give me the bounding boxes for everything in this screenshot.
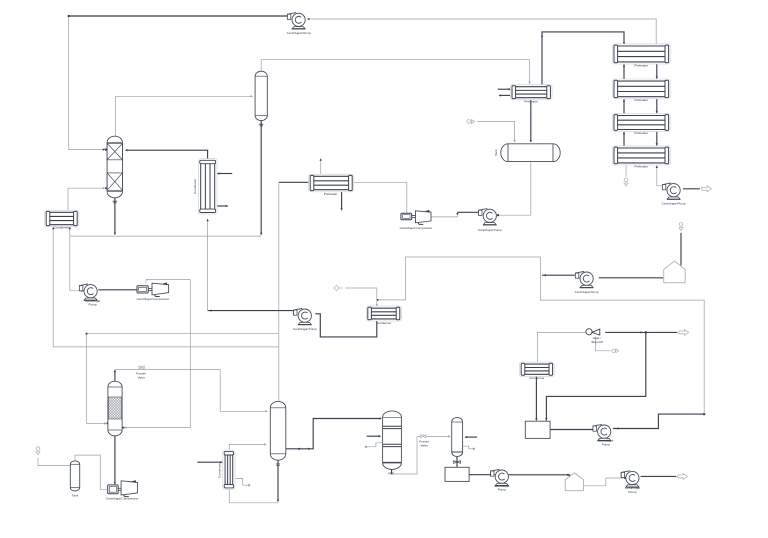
svg-text:Centrifugal Pump: Centrifugal Pump bbox=[478, 228, 502, 232]
arrowhead V2 bottoms down bbox=[259, 124, 263, 235]
wire gate valve discharge bbox=[605, 331, 677, 333]
wire stack right downcomer 3 bbox=[656, 131, 658, 146]
gate shut-off valve GV1 bbox=[586, 329, 600, 335]
wire house H1 to P6 bbox=[599, 277, 663, 279]
wire big recycle to E5 condenser bbox=[378, 257, 704, 414]
arrowhead stack right 3 bbox=[656, 143, 658, 146]
dot V5 drain end bbox=[473, 448, 475, 450]
pump P4 centrifugal bbox=[479, 209, 497, 225]
svg-text:Condenser: Condenser bbox=[218, 463, 222, 478]
arrowhead into E5 top bbox=[376, 304, 378, 307]
heat exchanger E4d preheater bbox=[612, 146, 670, 165]
zigzag valve drain bbox=[596, 337, 611, 351]
arrowhead into E2 bottom bbox=[206, 219, 208, 222]
pump P8 centrifugal bbox=[621, 471, 639, 487]
junction recycle-E5 bbox=[377, 299, 379, 301]
label E5 bbox=[376, 321, 391, 325]
pump P9 centrifugal bbox=[662, 183, 680, 199]
arrowhead into column T1 lower bbox=[103, 187, 107, 189]
svg-text:Condenser: Condenser bbox=[54, 226, 69, 230]
svg-text:Condenser: Condenser bbox=[376, 321, 391, 325]
wire K1 discharge to column C3 bbox=[125, 280, 191, 428]
wire E6 right to K2 motor bbox=[352, 182, 406, 213]
wire icon to house H1 bbox=[680, 233, 682, 266]
tank T2 small bbox=[70, 461, 79, 491]
vessel V2 knockout drum bbox=[255, 71, 267, 120]
wire B2 to pump P5 bbox=[469, 474, 495, 476]
svg-text:Centrifugal Pump: Centrifugal Pump bbox=[662, 201, 686, 205]
label E3 bbox=[524, 99, 538, 103]
label P9 bbox=[662, 201, 686, 205]
hopper H1 bbox=[664, 261, 686, 283]
label K3 bbox=[106, 496, 139, 500]
label P5 line1 bbox=[494, 484, 509, 488]
label R1 bbox=[388, 471, 394, 475]
arrowhead C3 overhead up bbox=[114, 369, 116, 372]
svg-text:Valve: Valve bbox=[137, 375, 145, 379]
arrowhead R1 side feed bbox=[379, 435, 382, 437]
compressor K3 centrifugal bbox=[108, 480, 138, 496]
wire P7 discharge recycle bbox=[613, 414, 703, 428]
V5 bottoms valve mark bbox=[454, 461, 461, 464]
wire P1 discharge down to column T1 feed bbox=[69, 16, 105, 150]
svg-text:Pump: Pump bbox=[602, 442, 610, 446]
heat exchanger E3 preheater bbox=[510, 85, 552, 100]
label GV1 line1 bbox=[593, 336, 602, 340]
label FV2 line1 bbox=[419, 440, 429, 444]
arrowhead E6 drain bbox=[340, 208, 342, 211]
svg-text:Pump: Pump bbox=[498, 488, 506, 492]
wire stack right downcomer 2 bbox=[656, 98, 658, 113]
wire stack left riser 2 bbox=[623, 99, 625, 114]
wire H2 to pump P8 bbox=[584, 478, 625, 486]
svg-text:Centrifugal Pump: Centrifugal Pump bbox=[287, 31, 311, 35]
svg-text:Preheater: Preheater bbox=[635, 98, 649, 102]
label P4 bbox=[478, 228, 502, 232]
stub E6 top vent bbox=[320, 160, 322, 175]
svg-text:Shut-Off: Shut-Off bbox=[591, 340, 603, 344]
feeder valve FV2 bbox=[421, 434, 426, 438]
stream outlet arrow after P9 bbox=[702, 186, 712, 192]
svg-text:Preheater: Preheater bbox=[635, 164, 649, 168]
svg-text:Tank: Tank bbox=[494, 149, 498, 156]
junction dot C3 header corner bbox=[86, 333, 88, 335]
heat exchanger E4a preheater bbox=[612, 44, 670, 64]
wire C3 overhead bbox=[114, 371, 116, 382]
stream icon stack vent bbox=[624, 178, 628, 186]
label E8 rotated bbox=[218, 463, 222, 478]
wire condenser E2 top to column T1 right bbox=[126, 150, 208, 160]
pump P7 centrifugal bbox=[593, 424, 611, 440]
pump P1 centrifugal bbox=[287, 13, 305, 29]
arrowhead C4 bottoms bbox=[276, 464, 280, 502]
arrowhead stack right 1 bbox=[656, 76, 658, 79]
arrowhead into B1 top bbox=[545, 418, 547, 421]
arrowhead E2 stub bbox=[226, 205, 229, 207]
column C4 tall vessel bbox=[270, 401, 286, 460]
wire valve FV2 to drum V5 bbox=[426, 435, 449, 437]
arrowhead into column T1 right bbox=[125, 149, 128, 151]
wire feed icon to tank T2 bbox=[38, 458, 70, 466]
arrowhead E6 vent bbox=[320, 158, 322, 161]
arrowhead into V5 left bbox=[448, 435, 451, 437]
wire V2 bottoms bbox=[260, 121, 262, 234]
stub E6 bottom drain bbox=[341, 191, 343, 209]
wire C4 bottoms bbox=[277, 460, 279, 501]
label P6 bbox=[575, 290, 599, 294]
svg-text:Centrifugal Compressor: Centrifugal Compressor bbox=[106, 496, 139, 500]
drum V5 flash bbox=[452, 417, 463, 456]
arrowhead into R1 bbox=[298, 417, 382, 450]
wire stack left riser 3 bbox=[623, 132, 625, 147]
box B2 sump tank bbox=[445, 467, 469, 481]
wire feed icon to tank top bbox=[478, 122, 515, 142]
label P7 line2 bbox=[602, 442, 610, 446]
arrowhead into H2 bbox=[567, 474, 570, 476]
arrowhead into tank top 2 bbox=[513, 140, 515, 143]
arrowhead into C3 right bbox=[123, 426, 127, 428]
dot R1 drain end bbox=[365, 446, 367, 448]
label GV1 line2 bbox=[591, 340, 603, 344]
reactor R1 tubular bbox=[383, 411, 402, 474]
wire P2 discharge to K1 bbox=[98, 289, 136, 291]
junction dot top-left corner bbox=[68, 15, 70, 17]
label FV1 line1 bbox=[136, 372, 146, 376]
wire E7 bottom to box B1 bbox=[535, 375, 537, 419]
svg-text:Valve: Valve bbox=[420, 443, 428, 447]
wire P1 suction from preheater stack bbox=[308, 19, 657, 46]
label E7 bbox=[529, 376, 544, 380]
svg-text:Preheater: Preheater bbox=[524, 99, 538, 103]
label P2 line1 bbox=[85, 299, 100, 303]
pump P6 centrifugal bbox=[575, 271, 593, 287]
wire E1 top port to column T1 lower feed bbox=[68, 188, 105, 211]
pump P2 centrifugal bbox=[79, 284, 97, 300]
wire E6 left port bbox=[279, 181, 310, 183]
stub E2 side inlet bbox=[218, 173, 232, 175]
condenser E2 vertical bbox=[198, 159, 217, 214]
label FV2 line2 bbox=[420, 443, 428, 447]
wire valve line down to box B1 bbox=[546, 332, 645, 420]
column T1 packed absorber bbox=[107, 136, 122, 198]
arrowhead E3 stub out bbox=[498, 94, 501, 96]
label P5 line2 bbox=[498, 488, 506, 492]
arrowhead stack left 2 bbox=[623, 99, 625, 102]
label P1 bbox=[287, 31, 311, 35]
svg-text:Tank: Tank bbox=[72, 494, 79, 498]
arrowhead into C3 left bbox=[104, 422, 108, 424]
arrowhead P7 discharge bbox=[617, 413, 705, 430]
stream icon E5 feed bbox=[334, 285, 343, 290]
arrowhead E8-C4 bbox=[264, 443, 267, 445]
hopper H2 bbox=[565, 473, 583, 491]
arrowhead E3 stub in bbox=[509, 88, 512, 90]
label E6 bbox=[324, 192, 338, 196]
wire K2 discharge bbox=[432, 213, 458, 217]
arrowhead valve discharge bbox=[640, 331, 647, 333]
svg-text:Centrifugal Pump: Centrifugal Pump bbox=[575, 290, 599, 294]
zigzag R1 drain bbox=[367, 443, 383, 447]
stub E3 left inlet bbox=[498, 88, 510, 90]
label E2 rotated bbox=[193, 179, 197, 194]
svg-text:Preheater: Preheater bbox=[635, 64, 649, 68]
arrowhead stack left 3 bbox=[623, 132, 625, 135]
wire R1 bottoms bbox=[391, 437, 420, 474]
wire diamond icon to E5 top bbox=[345, 288, 377, 306]
heat exchanger E5 condenser bbox=[366, 306, 401, 321]
wire B1 to pump P7 bbox=[550, 429, 594, 431]
svg-text:Pump: Pump bbox=[628, 490, 636, 494]
wire column T1 bottoms bbox=[114, 198, 116, 234]
svg-text:Condenser: Condenser bbox=[193, 179, 197, 194]
label P3 bbox=[293, 327, 317, 331]
label K1 bbox=[137, 297, 170, 301]
wire C3 overhead to C4 feed bbox=[115, 370, 267, 412]
feeder valve FV1 bbox=[139, 365, 144, 369]
arrowhead into V2 left bbox=[251, 95, 254, 97]
arrowhead stack to P9 bbox=[656, 165, 658, 168]
svg-text:Centrifugal Compressor: Centrifugal Compressor bbox=[137, 297, 170, 301]
wire E1 bottoms header bbox=[70, 235, 261, 237]
wire riser to E2 bottom bbox=[207, 220, 209, 311]
arrowhead E7 into B1 bbox=[535, 418, 537, 421]
zigzag E8 drain bbox=[234, 479, 249, 486]
svg-text:Centrifugal Compressor: Centrifugal Compressor bbox=[400, 226, 433, 230]
wire tank T2 to compressor K3 bbox=[75, 455, 107, 489]
stream outlet arrow after P8 bbox=[678, 473, 688, 479]
svg-text:PBR: PBR bbox=[388, 471, 394, 475]
stream icon H1 feed bbox=[679, 223, 683, 231]
wire E6/E1 run down to column C4 top bbox=[278, 182, 280, 347]
compressor K2 centrifugal bbox=[401, 210, 431, 224]
label K2 bbox=[400, 226, 433, 230]
wire E1 right port down to pump P2 bbox=[70, 226, 83, 291]
tank T3 horizontal bbox=[501, 144, 560, 162]
label FV1 line2 bbox=[137, 375, 145, 379]
wire P8 to outlet bbox=[641, 475, 677, 477]
condenser E8 vertical bbox=[223, 450, 235, 490]
arrowhead K2-P4 junction bbox=[456, 212, 458, 215]
svg-text:Condenser: Condenser bbox=[529, 376, 544, 380]
zigzag V5 drain bbox=[462, 446, 473, 449]
label P8 line1 bbox=[625, 486, 640, 490]
stream icon T2 feed bbox=[36, 447, 40, 455]
column C3 packed stripper bbox=[108, 381, 122, 436]
label E4c bbox=[635, 131, 649, 135]
svg-text:Centrifugal Pump: Centrifugal Pump bbox=[293, 327, 317, 331]
arrowhead into column T1 top feed bbox=[103, 148, 107, 150]
wire tank bottoms to pump P4 bbox=[497, 162, 531, 215]
wire P9 discharge to outlet bbox=[683, 188, 700, 190]
junction dot P8 inlet bbox=[624, 477, 626, 479]
stub R1 side feed bbox=[367, 435, 380, 437]
wire E3 bottom to tank bbox=[530, 99, 532, 141]
label E4d bbox=[635, 164, 649, 168]
label E4a bbox=[635, 64, 649, 68]
wire E7 top to gate valve bbox=[538, 332, 588, 363]
wire stack bottom-right to pump P9 bbox=[657, 164, 663, 186]
wire stack bottom-left to vent icon bbox=[625, 164, 627, 177]
stream outlet arrow after GV1 bbox=[679, 329, 689, 335]
wire C4 right to reactor R1 bbox=[286, 419, 381, 449]
svg-text:Pump: Pump bbox=[89, 303, 97, 307]
wire P5 to house H2 bbox=[509, 474, 569, 476]
arrowhead into E8 left bbox=[220, 461, 223, 463]
arrowhead P1 suction bbox=[307, 18, 310, 20]
wire header to column C3 left bbox=[87, 334, 106, 424]
wire E3 to preheater stack feed bbox=[542, 32, 624, 86]
wire stack right downcomer 1 bbox=[656, 63, 658, 78]
heat exchanger E4b preheater bbox=[612, 79, 670, 99]
heat exchanger E4c preheater bbox=[612, 113, 670, 131]
arrowhead stack feed bbox=[541, 34, 625, 45]
wire P3 discharge to E2 bottom bbox=[208, 310, 295, 312]
arrowhead into C4 upper left bbox=[265, 410, 268, 412]
arrowhead P6 discharge bbox=[543, 274, 546, 276]
wire V2 overhead to E3 top bbox=[261, 60, 529, 83]
stub E2 side outlet bbox=[216, 205, 227, 207]
box B1 sump tank bbox=[525, 421, 550, 438]
wire E1 left port down long run bbox=[53, 226, 278, 347]
wire stack left riser 1 bbox=[623, 64, 625, 79]
arrowhead into E1 left port bbox=[52, 227, 54, 230]
svg-text:Preheater: Preheater bbox=[324, 192, 338, 196]
arrowhead stack right 2 bbox=[656, 111, 658, 114]
dot E8 drain end bbox=[248, 484, 250, 486]
valve drain icon bbox=[612, 349, 619, 353]
pump P3 centrifugal bbox=[294, 308, 312, 324]
wire into P4 suction bbox=[457, 211, 479, 213]
label P8 line2 bbox=[628, 490, 636, 494]
label tank T3 rotated bbox=[494, 149, 498, 156]
compressor K1 centrifugal bbox=[137, 283, 169, 297]
arrowhead P3 discharge bbox=[209, 309, 212, 311]
heat exchanger E1 condenser bbox=[45, 210, 79, 227]
wire E8 top to C4 lower left bbox=[229, 444, 265, 451]
arrowhead T1 bottoms down bbox=[113, 201, 117, 235]
label E1 bbox=[54, 226, 69, 230]
stub E3 left outlet bbox=[500, 94, 512, 96]
wire P1 discharge dark header bbox=[69, 15, 289, 17]
wire E5 bottoms to P3 suction bbox=[315, 314, 377, 337]
wire P6 discharge to recycle bbox=[542, 274, 575, 276]
wire column T1 overhead to vessel V2 bbox=[115, 96, 251, 136]
label E4b bbox=[635, 98, 649, 102]
arrowhead C3 bottoms bbox=[114, 482, 116, 485]
wire C3 bottoms to K3 bbox=[114, 436, 116, 484]
svg-text:Preheater: Preheater bbox=[635, 131, 649, 135]
wire C3 left header horizontal bbox=[87, 333, 279, 335]
arrowhead into tank top bbox=[530, 140, 532, 143]
wire V5 bottoms to box B2 bbox=[456, 457, 458, 467]
arrowhead stack left 1 bbox=[623, 64, 625, 67]
wire into column C4 top bbox=[278, 347, 280, 401]
arrowhead E2 stub in bbox=[217, 172, 220, 174]
arrowhead into E1 right port bbox=[69, 227, 84, 292]
heat exchanger E7 condenser bbox=[520, 362, 555, 376]
stub coolant to E8 bbox=[197, 461, 221, 463]
stub V5 right feed bbox=[466, 436, 478, 438]
label P7 line1 bbox=[598, 439, 613, 443]
arrowhead into E3 top bbox=[260, 71, 531, 85]
wire C4 bottoms to E8 bottom bbox=[229, 488, 278, 502]
heat exchanger E6 preheater bbox=[309, 174, 354, 192]
label P2 line2 bbox=[89, 303, 97, 307]
junction dot P4 outlet bbox=[497, 214, 499, 216]
arrowhead V5 right bbox=[464, 436, 467, 438]
pump P5 centrifugal bbox=[491, 469, 509, 485]
label T2 bbox=[72, 494, 79, 498]
stream icon tank feed bbox=[467, 120, 475, 124]
